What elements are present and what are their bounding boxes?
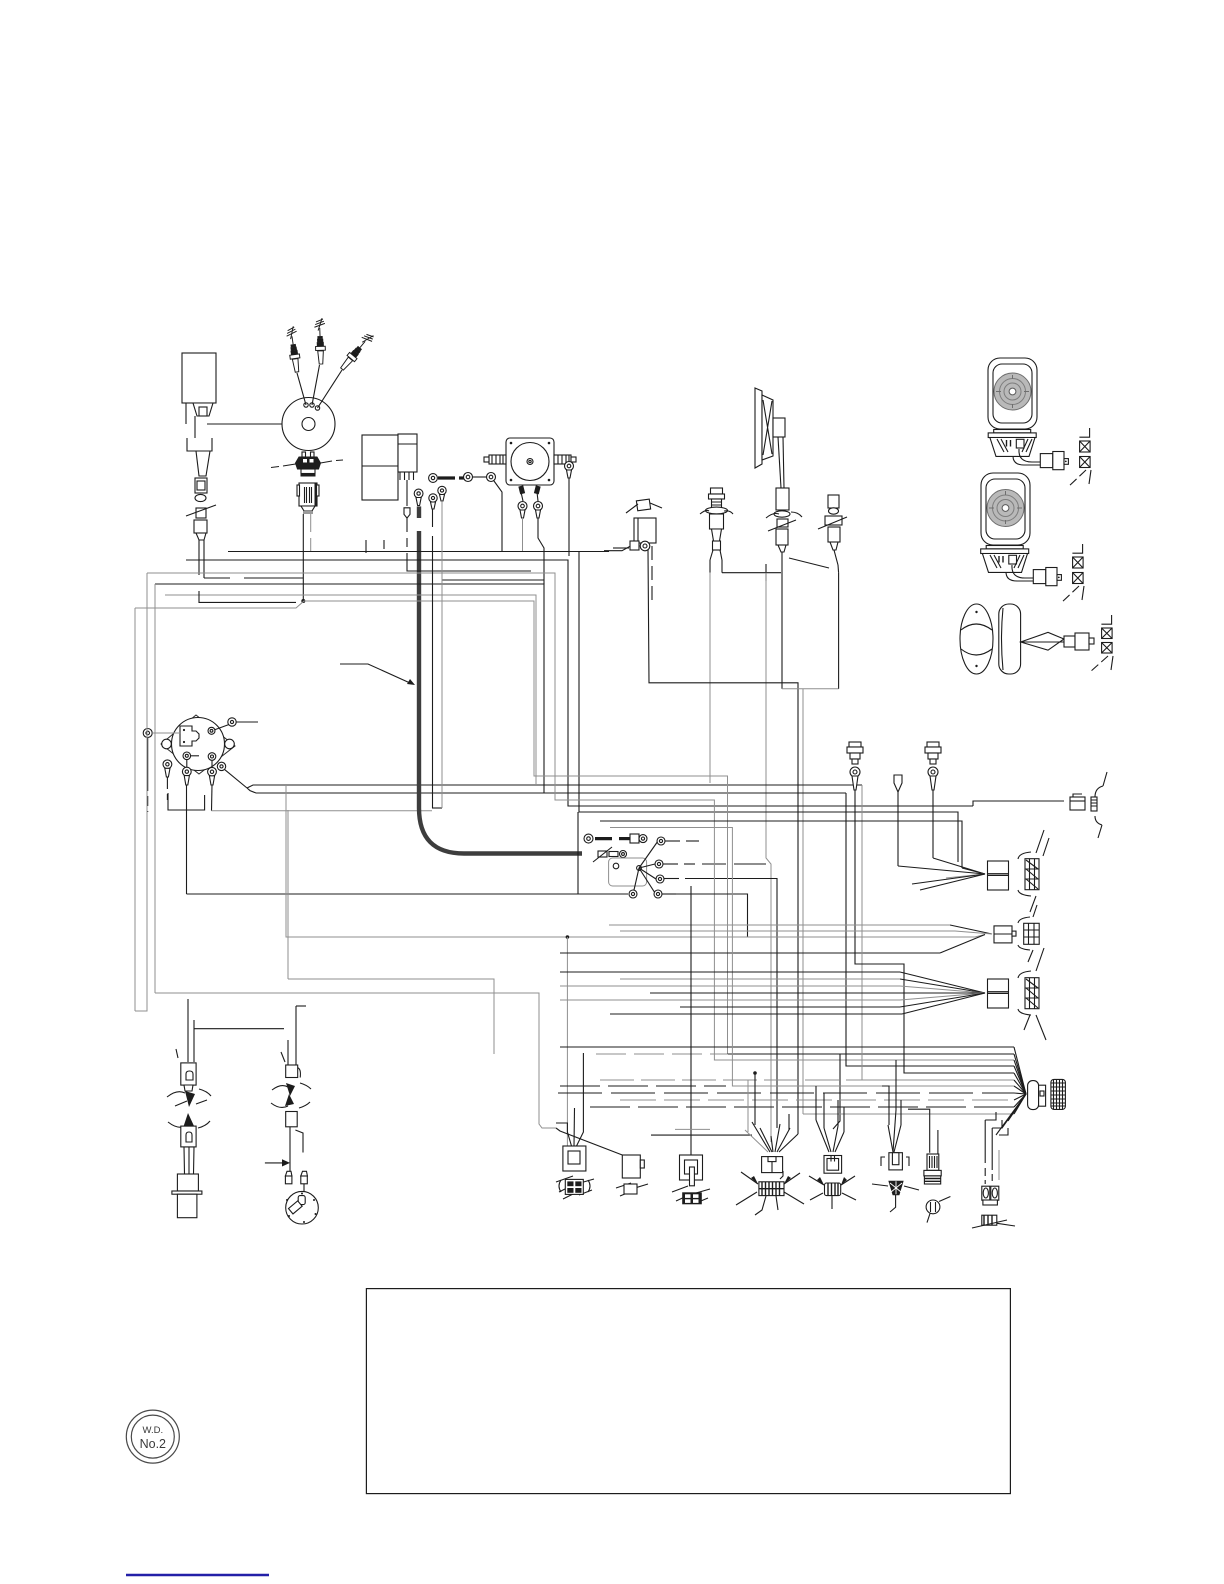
connector C (988, 979, 1009, 1008)
pump lead left (518, 492, 527, 552)
wire coil to distributor (207, 423, 303, 425)
battery cable chain upper (584, 834, 647, 843)
pressure switch 1 (847, 742, 863, 764)
spark plug wire 1 (297, 373, 306, 405)
g2-g3 link wire (651, 1134, 752, 1136)
g4 feeder wires (748, 1071, 789, 1132)
bottom g3 wire (690, 886, 692, 1155)
wire from coil connector (204, 577, 230, 579)
junction dot (301, 599, 305, 603)
alternator (161, 715, 235, 774)
pump lead right (534, 492, 545, 584)
connector D fan (996, 1047, 1026, 1135)
wire sender1 down (709, 573, 711, 783)
blade terminal (894, 775, 902, 800)
distributor (282, 398, 335, 451)
flasher unit (626, 499, 662, 543)
bottom connector g2 (616, 1155, 648, 1196)
alternator harness wires right (212, 785, 863, 811)
headlight 2 mate connector (1061, 544, 1084, 603)
bottom-left connector column A (167, 999, 211, 1218)
headlight 1 (988, 358, 1037, 429)
tail lamp lens (960, 604, 993, 674)
key switch plug (286, 1191, 319, 1224)
harness D band (558, 1054, 1014, 1114)
small connector bottom right (972, 1215, 1015, 1228)
wire junction down (766, 573, 771, 1142)
wire distributor plug down (302, 514, 304, 601)
headlight 2 socket (981, 546, 1029, 573)
connector D (1028, 1081, 1046, 1110)
wire switch2 down (932, 800, 934, 858)
headlight 2 (981, 473, 1030, 545)
wire gray across (782, 688, 839, 690)
connector A (988, 861, 1009, 890)
bottom connector g5 (809, 1156, 856, 1210)
wires below fan D (985, 1112, 1008, 1185)
harness B wires left (609, 925, 955, 931)
regulator lead wires (366, 540, 384, 553)
battery cable thick (417, 506, 421, 518)
connector A fan (898, 858, 985, 890)
engine harness connector3 (818, 495, 847, 573)
wire blade down (897, 800, 899, 866)
bottom g6 fan (888, 1110, 901, 1152)
bottom g4 fan (745, 1122, 798, 1152)
connector D mate (1051, 1079, 1066, 1109)
ring terminal pair near regulator (429, 474, 470, 483)
bottom connector g7 (924, 1130, 941, 1184)
connector A mate (1018, 830, 1049, 912)
flasher wire (604, 543, 636, 551)
harness nest left (135, 552, 1014, 1061)
bottom g2 wire (556, 1128, 622, 1155)
bottom connector g4 (736, 1157, 804, 1215)
tail lamp bulb cone (1021, 632, 1064, 650)
wire stud down (648, 550, 798, 1134)
spark plug wire 2 (312, 365, 320, 405)
wire switch1 down (855, 800, 1014, 1073)
harness right step-down (560, 785, 1064, 1129)
bottom g7 wire (908, 1109, 930, 1153)
key terminal 2 (928, 767, 938, 800)
legend box (366, 1289, 1010, 1494)
coil bullet connector stack (186, 451, 216, 578)
wire dash segment (244, 577, 303, 579)
connector B fan (950, 925, 992, 934)
tail lamp plug (1064, 633, 1094, 650)
harness mid horizontals (155, 785, 985, 1146)
bulb g7 (926, 1197, 950, 1223)
pressure switch 2 (925, 742, 941, 764)
headlight 2 pigtail (1006, 565, 1061, 586)
relay drop wire (406, 480, 408, 506)
key terminal 1 (850, 767, 860, 800)
oil pressure sender (700, 488, 733, 560)
arrow annotation (340, 664, 415, 685)
battery cable chain lower (593, 847, 627, 862)
spark plug 2 (314, 318, 326, 364)
horn (755, 388, 785, 468)
distributor cap connector (271, 452, 343, 477)
ring terminal engine stud (613, 541, 650, 551)
starter solenoid plate (609, 858, 647, 886)
bottom g5 fan (816, 1120, 844, 1152)
wire conn3 down (838, 573, 840, 689)
spark plug 1 (285, 326, 302, 373)
alternator terminals (143, 718, 258, 812)
fuel pump (484, 438, 576, 494)
headlight 1 mate connector (1068, 428, 1091, 487)
regulator box (362, 434, 417, 500)
wd stamp (126, 1410, 179, 1463)
page link line (126, 1574, 269, 1576)
tail lamp housing (999, 604, 1021, 674)
svg-text:W.D.: W.D. (143, 1425, 164, 1436)
g6 feeder wires (882, 1060, 901, 1125)
ring terminal chain to pump (464, 473, 503, 553)
svg-text:No.2: No.2 (140, 1437, 166, 1451)
bottom connector g6 (872, 1153, 919, 1212)
g3 link wire (675, 1128, 710, 1130)
headlight 1 pigtail (1013, 449, 1068, 470)
connector C mate (1018, 948, 1046, 1040)
connector B (994, 926, 1016, 943)
solenoid stud (634, 841, 658, 893)
ignition coil (182, 353, 216, 438)
tail lamp mate connector (1090, 615, 1113, 672)
connector B mate (1018, 905, 1039, 962)
wire nest y602 (199, 591, 296, 602)
g5 feeder wires (816, 1086, 844, 1132)
bullet pair connector bottom right (982, 1186, 999, 1205)
wire senders junction (722, 564, 781, 581)
headlight 1 socket (988, 430, 1036, 457)
relay drop wire b (442, 579, 544, 581)
stud ring terminals (629, 837, 777, 1128)
spark plug wire 3 (318, 370, 343, 408)
bottom g1 wires (556, 1053, 583, 1146)
bottom-left connector column B (265, 1006, 311, 1192)
coil connector bracket (187, 438, 212, 451)
bottom connector g3 (672, 1155, 710, 1204)
harness nest left verticals (135, 501, 442, 1011)
bullet connector right (1070, 794, 1085, 810)
connector C fan (900, 972, 985, 1014)
bottom connector g1 (556, 1146, 594, 1199)
horn lead (766, 437, 829, 689)
distributor plug connector (297, 483, 319, 514)
spark plug 3 (338, 331, 376, 373)
sender lead wires (710, 560, 722, 573)
bullet mate (1091, 772, 1107, 838)
harness C wires left (560, 972, 902, 1014)
ring terminal right of pump (565, 462, 574, 557)
